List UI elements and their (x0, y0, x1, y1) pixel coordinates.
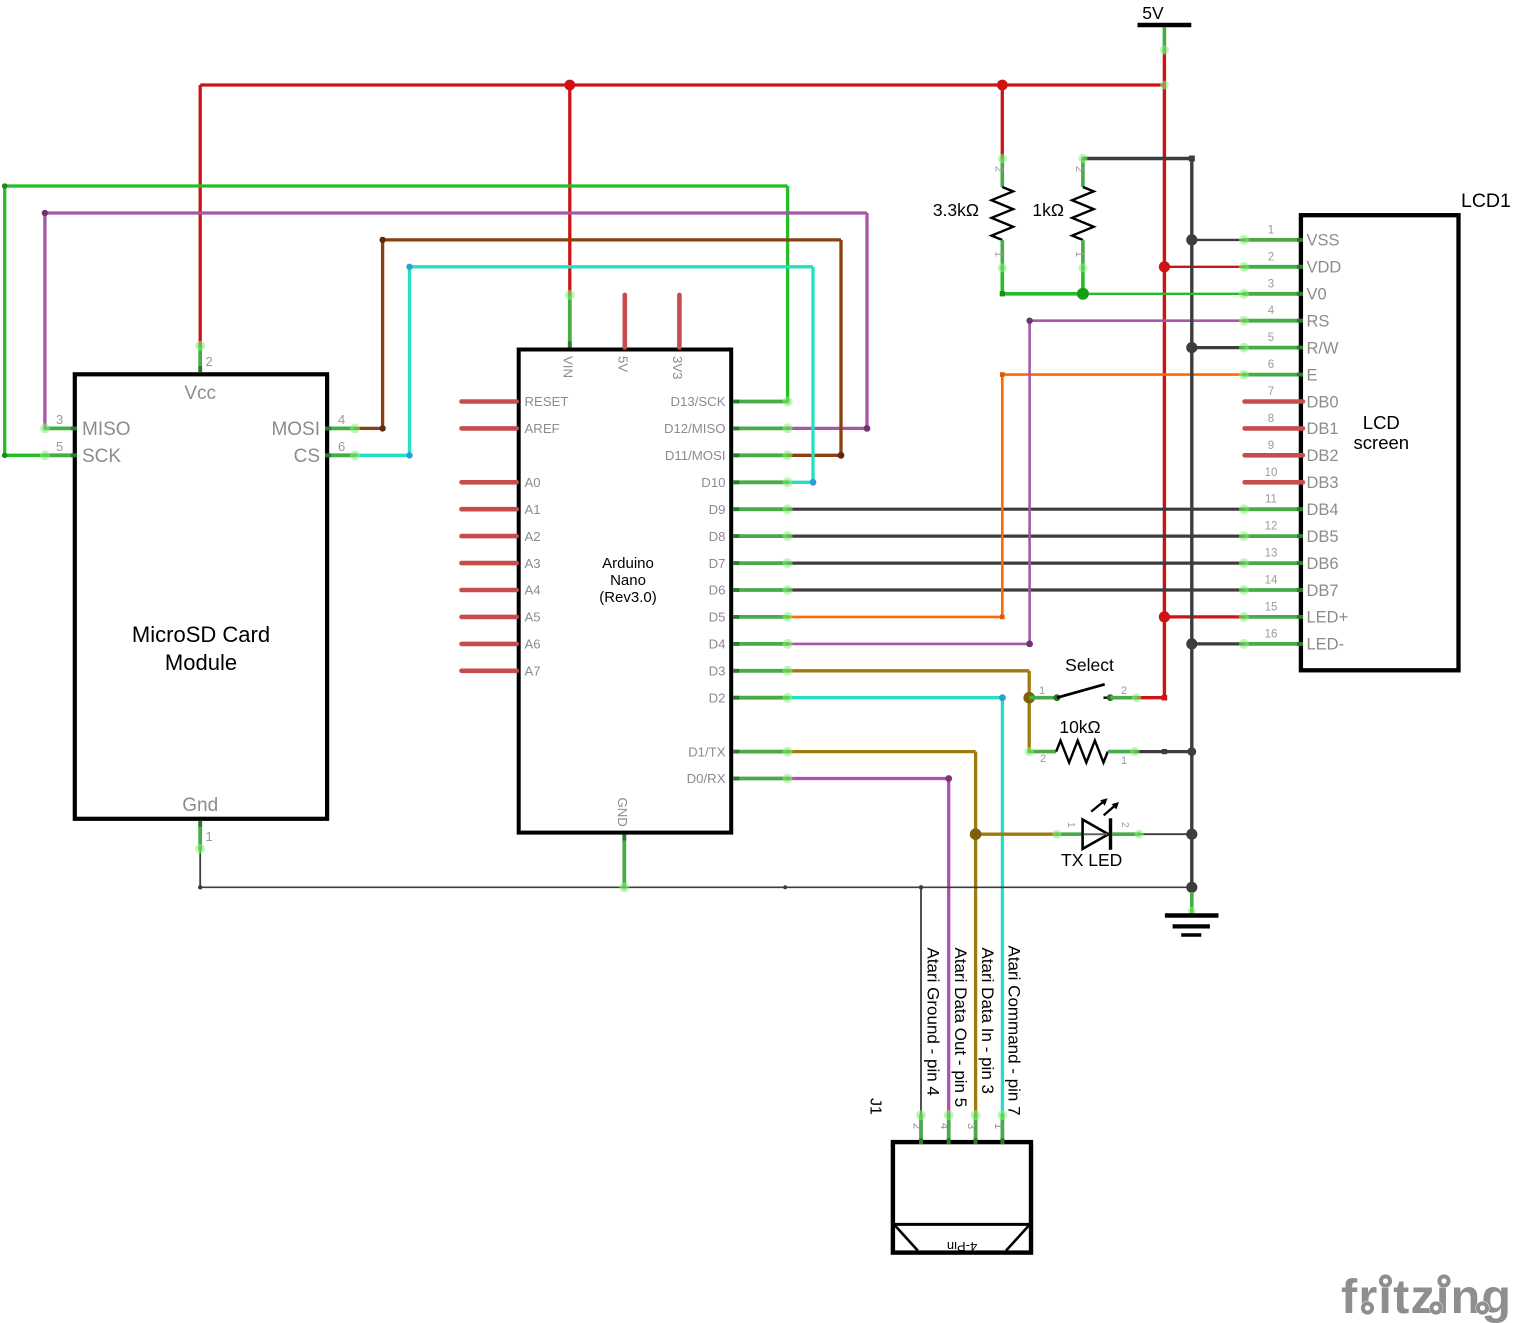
svg-text:Module: Module (165, 650, 237, 675)
svg-text:3: 3 (56, 412, 63, 427)
wire cyan vertical to J1 pin 1 (1001, 698, 1004, 1115)
svg-text:CS: CS (294, 446, 320, 467)
svg-text:E: E (1307, 366, 1318, 384)
node green marker at 5V junction (1160, 81, 1169, 90)
wire green SCK bus (5, 184, 788, 187)
junction dark at LED cathode/bus (1186, 829, 1197, 840)
svg-text:Atari Data Out - pin 5: Atari Data Out - pin 5 (951, 948, 970, 1108)
svg-text:2: 2 (992, 166, 1004, 172)
wire brown to D11/MOSI (788, 454, 841, 457)
svg-text:5: 5 (1268, 332, 1274, 344)
svg-text:DB5: DB5 (1307, 528, 1339, 546)
wire orange D5 horizontal (788, 616, 1003, 619)
resistor R2 zigzag (1072, 187, 1094, 240)
wire dark drop to J1 pin 2 (920, 887, 922, 1115)
wire green left vertical (3, 186, 6, 455)
pin A0 leg (unconnected) (462, 480, 517, 485)
svg-text:screen: screen (1354, 432, 1410, 453)
svg-text:DB4: DB4 (1307, 501, 1339, 519)
node green bend top-left (2, 183, 8, 189)
pin DB1 leg (8, unconnected) (1245, 426, 1303, 431)
switch Select pivot (1054, 694, 1061, 701)
LED TX anode leg (1057, 832, 1083, 836)
svg-text:A1: A1 (525, 502, 541, 517)
resistor R3 lead 1 (1108, 750, 1135, 754)
svg-text:VDD: VDD (1307, 259, 1342, 277)
resistor R1 lead 1 (1000, 240, 1004, 268)
wire orange vertical (1001, 375, 1004, 617)
wire red drop to MicroSD Vcc (199, 85, 202, 346)
svg-text:1: 1 (1065, 822, 1076, 828)
svg-text:10: 10 (1265, 467, 1278, 479)
node ground segment join (783, 885, 787, 889)
fritzing logo z-end ring (1429, 1301, 1443, 1315)
connector J1 pin 2 leg (919, 1115, 923, 1144)
pin A3 leg (unconnected) (462, 561, 517, 566)
svg-text:4: 4 (1268, 305, 1275, 317)
svg-text:2: 2 (1040, 753, 1046, 765)
resistor R3 10kΩ lead 2 (1029, 750, 1056, 754)
wire dark to LCD LED- (1192, 642, 1244, 645)
svg-text:MOSI: MOSI (271, 419, 320, 440)
power symbol 5V bar (1138, 23, 1192, 27)
svg-text:1: 1 (1121, 755, 1127, 767)
wire ground bus horizontal (200, 886, 1192, 888)
svg-text:Atari Command - pin 7: Atari Command - pin 7 (1005, 946, 1024, 1116)
junction red at LED+ (1159, 611, 1170, 622)
wire purple MISO bus (45, 211, 867, 214)
wire D8 to LCD DB5 (788, 534, 1244, 537)
wire dark from TX LED cathode (1139, 833, 1192, 835)
wire D6 to LCD DB7 (788, 588, 1244, 591)
connector J1 pin 4 leg (947, 1115, 951, 1144)
svg-text:1: 1 (1073, 251, 1085, 257)
svg-text:1kΩ: 1kΩ (1032, 200, 1064, 220)
pin D4 leg (733, 642, 787, 646)
svg-text:6: 6 (1268, 359, 1274, 371)
pin MOSI leg (4) (325, 426, 355, 430)
pin E leg (6) (1244, 373, 1303, 377)
fritzing logo ng ring (1476, 1301, 1490, 1315)
wire green to SCK pin (5, 454, 45, 457)
svg-text:A3: A3 (525, 556, 541, 571)
wire red to LCD LED+ (1164, 615, 1244, 618)
svg-text:DB2: DB2 (1307, 447, 1339, 465)
connector J1 corner diagonal left (895, 1225, 918, 1250)
svg-text:DB1: DB1 (1307, 420, 1339, 438)
resistor R3 zigzag (1056, 741, 1108, 763)
wire red drop to resistor R1 (1001, 85, 1004, 159)
svg-text:3: 3 (1268, 278, 1274, 290)
svg-text:1: 1 (992, 251, 1004, 257)
node purple bend at RS (1026, 318, 1032, 324)
node purple bend top-left (42, 210, 48, 216)
ground symbol bar 1 (1165, 913, 1219, 917)
svg-text:RS: RS (1307, 313, 1330, 331)
pin D0/RX leg (733, 777, 787, 781)
wire green R2 bottom vertical (1081, 268, 1085, 294)
svg-text:J1: J1 (867, 1098, 884, 1115)
wire purple to D12/MISO (788, 427, 867, 430)
svg-text:D4: D4 (709, 637, 726, 652)
wire brown left vertical (381, 240, 384, 429)
svg-text:DB6: DB6 (1307, 555, 1339, 573)
fritzing logo i-dot ring 1 (1379, 1274, 1393, 1288)
node green bend bottom-left (2, 453, 8, 459)
pin V0 leg (3) (1244, 292, 1303, 296)
wire gold to TX LED anode (976, 833, 1057, 836)
ground symbol leg (1190, 892, 1194, 914)
svg-text:A7: A7 (525, 664, 541, 679)
svg-text:Vcc: Vcc (184, 383, 216, 404)
svg-text:5V: 5V (1142, 3, 1164, 23)
node brown bend at MOSI (379, 425, 385, 431)
junction gold at Select pin 1 (1023, 692, 1035, 704)
svg-text:D11/MOSI: D11/MOSI (665, 448, 726, 463)
resistor R1 zigzag (992, 187, 1014, 240)
wire cyan CS bus (410, 265, 814, 268)
pin D9 leg (733, 507, 787, 511)
svg-text:VSS: VSS (1307, 232, 1340, 250)
pin D5 leg (733, 615, 787, 619)
wire purple RS vertical (1028, 321, 1031, 644)
svg-text:D7: D7 (709, 556, 726, 571)
pin A2 leg (unconnected) (462, 534, 517, 539)
svg-text:13: 13 (1265, 548, 1278, 560)
wire gold D1/TX horizontal (788, 750, 976, 753)
LED TX arrows (1091, 800, 1105, 812)
LED TX inner line (1084, 833, 1108, 835)
junction dark at R/W (1186, 342, 1197, 353)
LED TX triangle (1083, 820, 1109, 849)
junction dark at LED- (1186, 638, 1197, 649)
svg-text:2: 2 (1121, 685, 1127, 697)
wire dark vertical bus (1190, 159, 1193, 888)
wire gold D3 horizontal (788, 669, 1030, 672)
wire cyan D2 horizontal (788, 696, 1003, 699)
junction red at R1 drop (997, 80, 1008, 91)
svg-text:3: 3 (965, 1123, 977, 1129)
wire D9 to LCD DB4 (788, 508, 1244, 511)
wire purple right vertical (865, 213, 868, 428)
node purple end at D12 (864, 425, 871, 432)
pin 3V3 leg (unconnected) (677, 295, 682, 348)
pin DB4 leg (11) (1244, 507, 1303, 511)
svg-text:4: 4 (338, 412, 345, 427)
node cyan bend top-left (406, 264, 412, 270)
node ground at J1 branch (919, 885, 923, 889)
svg-text:LCD1: LCD1 (1461, 190, 1511, 212)
pin DB2 leg (9, unconnected) (1245, 453, 1303, 458)
switch Select pin 2 contact (1107, 694, 1114, 701)
pin RS leg (4) (1244, 319, 1303, 323)
wire dark to LCD R/W (1192, 346, 1244, 349)
pin D12/MISO leg (733, 426, 787, 430)
svg-text:Atari Data In - pin 3: Atari Data In - pin 3 (978, 948, 997, 1094)
wire purple left vertical (43, 213, 46, 428)
pin DB6 leg (13) (1244, 561, 1303, 565)
wire orange to LCD E (1002, 373, 1244, 376)
svg-text:A2: A2 (525, 529, 541, 544)
pin RESET leg (unconnected) (462, 399, 517, 404)
wire red vertical from 5V symbol (1163, 50, 1166, 698)
svg-text:V0: V0 (1307, 286, 1327, 304)
pin VDD leg (2) (1244, 265, 1303, 269)
pin DB7 leg (14) (1244, 588, 1303, 592)
svg-text:VIN: VIN (561, 356, 576, 378)
wire 5V horizontal bus (200, 83, 1164, 86)
node orange bend at D5 (1000, 615, 1005, 620)
svg-text:11: 11 (1265, 494, 1277, 506)
pin D8 leg (733, 534, 787, 538)
node brown bend top-left (379, 237, 385, 243)
node brown end at D11 (838, 452, 845, 459)
wire purple D4 horizontal (788, 643, 1030, 646)
svg-text:(Rev3.0): (Rev3.0) (599, 589, 657, 606)
svg-text:R/W: R/W (1307, 339, 1340, 357)
wire gold vertical to J1 pin 3 (974, 752, 977, 1116)
svg-text:D0/RX: D0/RX (687, 771, 726, 786)
svg-text:MISO: MISO (82, 419, 131, 440)
wire red to LCD VDD (1164, 266, 1244, 268)
pin Gnd leg (1) (198, 821, 202, 849)
svg-text:A5: A5 (525, 610, 541, 625)
pin DB0 leg (7, unconnected) (1245, 399, 1303, 404)
pin LED+ leg (15) (1244, 615, 1303, 619)
node orange bend at E (1000, 372, 1005, 377)
svg-text:5V: 5V (616, 356, 631, 372)
wire green R1 bottom vertical (1000, 268, 1004, 294)
pin D2 leg (733, 696, 787, 700)
node cyan end at D10 (810, 479, 817, 486)
pin CS leg (6) (325, 453, 355, 457)
junction dark at VSS (1186, 234, 1197, 245)
node magenta bend at D0 (945, 775, 952, 782)
connector J1 inner line (893, 1223, 1031, 1226)
junction gold at TX LED (970, 828, 982, 840)
svg-text:2: 2 (1119, 822, 1130, 828)
switch Select pin 1 leg (1029, 696, 1057, 700)
wire red to Select pin 2 (1137, 696, 1165, 699)
svg-text:3.3kΩ: 3.3kΩ (933, 200, 979, 220)
svg-text:Arduino: Arduino (602, 555, 654, 572)
svg-text:D13/SCK: D13/SCK (671, 394, 726, 409)
wire magenta vertical to J1 pin 4 (947, 779, 950, 1116)
wire red drop to Arduino VIN (568, 85, 571, 295)
svg-text:D1/TX: D1/TX (688, 744, 726, 759)
wire green R1 to R2 junction (1002, 292, 1083, 296)
node cyan bend at CS (406, 452, 412, 458)
svg-text:8: 8 (1268, 413, 1274, 425)
module MicroSD Card Module box (75, 374, 327, 819)
junction red at VDD (1159, 261, 1170, 272)
wire cyan to CS pin (355, 454, 410, 457)
svg-text:2: 2 (1268, 251, 1274, 263)
wire brown to MOSI pin (355, 427, 383, 430)
pin A7 leg (unconnected) (462, 668, 517, 673)
svg-text:5: 5 (56, 439, 63, 454)
resistor R1 3.3kΩ lead 2 (1000, 159, 1004, 188)
connector J1 pin 3 leg (974, 1115, 978, 1144)
pin SCK leg (5) (45, 453, 77, 457)
junction red at Vcc drop (564, 80, 575, 91)
svg-text:Nano: Nano (610, 572, 646, 589)
svg-text:RESET: RESET (525, 394, 569, 409)
pin DB3 leg (10, unconnected) (1245, 480, 1303, 485)
node dark square on R3 wire (1162, 749, 1167, 754)
node ground bend at MicroSD (198, 885, 202, 889)
node purple bend at D4 (1026, 641, 1033, 648)
svg-text:2: 2 (911, 1123, 923, 1129)
junction dark at R3/bus (1187, 747, 1196, 756)
svg-text:7: 7 (1268, 386, 1274, 398)
svg-text:D10: D10 (701, 475, 725, 490)
svg-text:6: 6 (338, 439, 345, 454)
switch Select lever (1057, 684, 1105, 697)
pin VIN leg (568, 295, 572, 348)
pin A5 leg (unconnected) (462, 615, 517, 620)
svg-text:LED-: LED- (1307, 636, 1345, 654)
svg-text:15: 15 (1265, 601, 1278, 613)
svg-text:3V3: 3V3 (670, 356, 685, 379)
connector J1 corner diagonal right (1006, 1225, 1029, 1250)
pin D1/TX leg (733, 750, 787, 754)
connector J1 pin 1 leg (1001, 1115, 1005, 1144)
wire green to LCD V0 (1083, 293, 1244, 295)
resistor R2 lead 1 (1081, 240, 1085, 268)
module LCD1 box (1301, 215, 1459, 670)
svg-text:D5: D5 (709, 610, 726, 625)
svg-text:D9: D9 (709, 502, 726, 517)
junction dark at ground symbol (1186, 882, 1197, 893)
svg-text:D2: D2 (709, 690, 726, 705)
pin A1 leg (unconnected) (462, 507, 517, 512)
svg-text:1: 1 (992, 1123, 1004, 1129)
svg-text:1: 1 (1039, 685, 1045, 697)
node cyan bend at D2 (999, 694, 1006, 701)
svg-text:1: 1 (206, 829, 213, 844)
svg-text:1: 1 (1268, 224, 1274, 236)
svg-text:Gnd: Gnd (182, 795, 218, 816)
pin MISO leg (3) (45, 426, 77, 430)
LED TX cathode leg (1112, 832, 1139, 836)
pin VSS leg (1) (1244, 238, 1303, 242)
svg-text:A4: A4 (525, 583, 541, 598)
switch Select pin 2 leg (1110, 696, 1136, 700)
svg-text:TX LED: TX LED (1061, 850, 1122, 870)
svg-text:Atari Ground - pin 4: Atari Ground - pin 4 (923, 948, 942, 1096)
wire cyan to D10 (788, 481, 813, 484)
pin D11/MOSI leg (733, 453, 787, 457)
svg-text:2: 2 (206, 354, 213, 369)
svg-text:MicroSD Card: MicroSD Card (132, 622, 270, 647)
svg-text:LED+: LED+ (1307, 609, 1349, 627)
wire cyan left vertical (408, 267, 411, 456)
wire cyan right vertical (811, 267, 814, 483)
pin LED- leg (16) (1244, 642, 1303, 646)
wire dark from R2 top (1083, 157, 1192, 160)
svg-text:9: 9 (1268, 440, 1274, 452)
svg-text:A0: A0 (525, 475, 541, 490)
svg-text:Select: Select (1065, 655, 1114, 675)
fritzing logo i-dot ring 2 (1437, 1274, 1451, 1288)
module Arduino Nano box (519, 350, 732, 833)
svg-text:SCK: SCK (82, 446, 121, 467)
svg-text:LCD: LCD (1363, 412, 1400, 433)
svg-text:14: 14 (1265, 575, 1278, 587)
resistor R2 1kΩ lead 2 (1081, 159, 1085, 188)
switch Select pin 2 stub (1104, 697, 1111, 699)
wire purple to LCD RS (1030, 319, 1244, 322)
svg-text:AREF: AREF (525, 421, 560, 436)
svg-text:D8: D8 (709, 529, 726, 544)
svg-text:10kΩ: 10kΩ (1059, 717, 1100, 737)
LED TX cathode bar (1109, 818, 1112, 850)
pin R/W leg (5) (1244, 346, 1303, 350)
pin D7 leg (733, 561, 787, 565)
wire brown MOSI bus (383, 238, 841, 241)
pin D3 leg (733, 669, 787, 673)
wire D7 to LCD DB6 (788, 561, 1244, 564)
ground symbol bar 2 (1173, 924, 1210, 928)
svg-text:16: 16 (1265, 628, 1278, 640)
svg-text:D3: D3 (709, 664, 726, 679)
svg-text:fritzing: fritzing (1341, 1270, 1512, 1323)
wire dark to LCD VSS (1192, 239, 1244, 241)
wire green drop to D13/SCK (786, 186, 789, 402)
pin 5V leg (unconnected) (622, 295, 627, 348)
pin D10 leg (733, 480, 787, 484)
svg-text:4-Pin: 4-Pin (947, 1239, 977, 1254)
pin GND leg (622, 835, 626, 888)
wire ground drop from MicroSD Gnd (199, 849, 201, 887)
pin A4 leg (unconnected) (462, 588, 517, 593)
pin D6 leg (733, 588, 787, 592)
pin A6 leg (unconnected) (462, 642, 517, 647)
wire magenta D0/RX horizontal (788, 777, 949, 780)
svg-text:12: 12 (1265, 521, 1278, 533)
node red end at Select (1162, 695, 1168, 701)
svg-text:D6: D6 (709, 583, 726, 598)
pin Vcc leg (2) (198, 346, 202, 373)
svg-text:4: 4 (938, 1123, 950, 1129)
power symbol 5V leg (1163, 27, 1167, 53)
node dark bend at R2 top (1189, 156, 1195, 162)
svg-text:A6: A6 (525, 637, 541, 652)
svg-text:D12/MISO: D12/MISO (664, 421, 726, 436)
svg-text:DB3: DB3 (1307, 474, 1339, 492)
pin D13/SCK leg (733, 400, 787, 404)
fritzing logo r-foot ring (1361, 1301, 1375, 1315)
svg-text:2: 2 (1073, 166, 1085, 172)
junction green at V0 (1077, 288, 1089, 300)
svg-text:DB0: DB0 (1307, 393, 1339, 411)
pin AREF leg (unconnected) (462, 426, 517, 431)
ground symbol bar 3 (1181, 933, 1201, 936)
node green square at R1 bottom (1000, 291, 1005, 296)
wire gold vertical to Select (1028, 671, 1031, 752)
pin DB5 leg (12) (1244, 534, 1303, 538)
svg-text:DB7: DB7 (1307, 582, 1339, 600)
connector J1 box (893, 1142, 1031, 1253)
wire brown right vertical (839, 240, 842, 455)
svg-text:GND: GND (615, 798, 630, 827)
wire dark from R3 to bus (1135, 750, 1192, 753)
